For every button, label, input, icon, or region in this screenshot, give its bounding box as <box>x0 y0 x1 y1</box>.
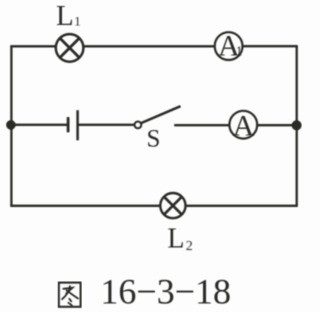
wire middle: left junction to battery <box>10 124 67 126</box>
wire top middle segment <box>84 45 215 47</box>
caption hanzi "tu" (drawn) <box>59 283 81 307</box>
ammeter A circle <box>229 111 257 139</box>
wire middle: battery to switch <box>78 124 134 126</box>
battery long plate (positive) <box>76 110 79 140</box>
switch hinge circle <box>135 122 142 129</box>
svg-text:S: S <box>147 126 161 153</box>
switch lever <box>141 106 181 123</box>
wire bottom right segment <box>186 205 298 207</box>
wire top left segment <box>10 45 55 47</box>
svg-text:1: 1 <box>236 43 243 58</box>
wire bottom left segment <box>10 205 160 207</box>
lamp L1 cross <box>60 38 79 57</box>
wire middle: ammeter A to right junction <box>258 124 298 126</box>
wire top right segment <box>243 45 298 47</box>
wire left vertical <box>10 46 12 206</box>
svg-text:16−3−18: 16−3−18 <box>100 272 231 312</box>
junction dot left node <box>6 120 16 130</box>
ammeter A1 circle <box>215 32 243 60</box>
wire middle: switch contact to ammeter A <box>174 124 229 126</box>
wire right vertical <box>296 46 298 206</box>
lamp L2 cross <box>164 197 182 215</box>
svg-text:1: 1 <box>74 14 81 29</box>
svg-text:2: 2 <box>186 239 193 254</box>
svg-text:L: L <box>56 0 74 32</box>
battery short plate (negative) <box>67 117 70 132</box>
lamp L1 circle <box>56 34 84 62</box>
svg-text:A: A <box>233 109 255 142</box>
svg-text:L: L <box>167 224 184 255</box>
junction dot right node <box>292 120 302 130</box>
lamp L2 circle <box>160 193 185 218</box>
